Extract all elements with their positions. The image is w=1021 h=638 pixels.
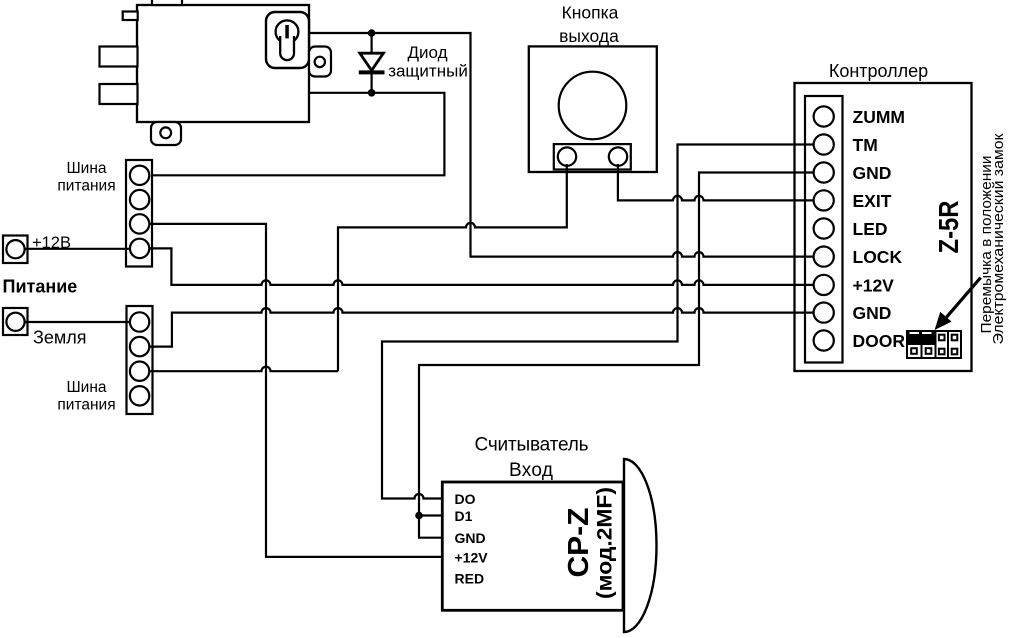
diode VD1 cathode bar bbox=[359, 70, 385, 74]
svg-text:питания: питания bbox=[57, 178, 115, 195]
svg-text:+12V: +12V bbox=[853, 276, 895, 296]
svg-text:Кнопка: Кнопка bbox=[562, 3, 619, 23]
svg-text:GND: GND bbox=[853, 303, 892, 323]
svg-text:Z-5R: Z-5R bbox=[933, 201, 964, 254]
svg-text:LOCK: LOCK bbox=[853, 247, 903, 267]
wire button terminal B to EXIT bbox=[618, 164, 818, 200]
svg-text:Считыватель: Считыватель bbox=[475, 435, 589, 456]
lock right mounting lug bbox=[309, 47, 331, 77]
svg-text:питания: питания bbox=[57, 397, 115, 414]
svg-text:Вход: Вход bbox=[509, 460, 553, 481]
svg-text:Диод: Диод bbox=[407, 43, 447, 62]
+12V input terminal box bbox=[3, 236, 28, 264]
svg-text:Электромеханический замок: Электромеханический замок bbox=[990, 133, 1007, 344]
lock cylinder plate bbox=[266, 12, 309, 68]
svg-text:защитный: защитный bbox=[388, 62, 468, 81]
svg-text:Шина: Шина bbox=[66, 160, 106, 177]
wire bus1-3 to reader +12V bbox=[149, 224, 442, 557]
terminal TM bbox=[814, 134, 834, 154]
svg-text:Шина: Шина bbox=[66, 379, 106, 396]
node dot diode anode bbox=[368, 29, 376, 37]
reader CP-Z box bbox=[442, 482, 623, 610]
wire lock top to LOCK terminal bbox=[309, 33, 818, 257]
svg-text:+12В: +12В bbox=[32, 234, 71, 252]
exit button terminal A bbox=[558, 147, 576, 165]
exit button SB1 box bbox=[529, 46, 657, 172]
wire TM to reader DO bbox=[382, 145, 818, 499]
svg-text:D1: D1 bbox=[455, 508, 473, 524]
exit button SB1 cap circle bbox=[559, 72, 627, 140]
svg-text:GND: GND bbox=[455, 530, 486, 546]
wire bus2-3 ground stub bbox=[149, 367, 338, 372]
svg-text:TM: TM bbox=[853, 135, 878, 155]
wire reader D1 to reader GND bbox=[419, 516, 443, 538]
wire +12V input to bus1 bbox=[25, 248, 130, 250]
jumper column 3 bbox=[936, 331, 949, 358]
+12V input terminal circle bbox=[6, 240, 24, 258]
bus1 terminal 2 bbox=[130, 190, 149, 209]
terminal GND1 bbox=[814, 162, 834, 182]
wire diode branch bbox=[371, 33, 373, 93]
svg-text:(мод.2MF): (мод.2MF) bbox=[594, 487, 617, 599]
arrow to jumper bbox=[947, 278, 981, 318]
svg-text:+12V: +12V bbox=[455, 550, 489, 566]
power bus strip 2 (bottom) bbox=[127, 306, 153, 414]
bus2 terminal 2 bbox=[130, 337, 149, 356]
terminal LOCK bbox=[814, 247, 834, 267]
bus2 terminal 4 bbox=[130, 386, 149, 405]
node dot D1 junction bbox=[415, 512, 423, 520]
lock EM1 body bbox=[137, 5, 309, 122]
jumper cell 2 bbox=[922, 344, 936, 358]
reader dome bbox=[624, 459, 657, 632]
terminal GND2 bbox=[814, 303, 834, 323]
svg-text:LED: LED bbox=[853, 219, 888, 239]
svg-text:ZUMM: ZUMM bbox=[853, 107, 905, 127]
lock right lug hole bbox=[315, 57, 325, 67]
svg-text:Питание: Питание bbox=[3, 277, 78, 297]
bus2 terminal 1 bbox=[130, 312, 149, 331]
wire button terminal A to GND bus bbox=[338, 164, 567, 371]
svg-text:Земля: Земля bbox=[33, 328, 87, 348]
wire GND to reader D1 bbox=[419, 173, 818, 516]
lock key tongue bbox=[280, 36, 294, 60]
svg-text:GND: GND bbox=[853, 163, 892, 183]
lock key slot bar bbox=[285, 25, 289, 38]
lock left small tab bbox=[123, 12, 138, 21]
bus1 terminal 1 bbox=[130, 166, 149, 185]
svg-text:RED: RED bbox=[455, 571, 485, 587]
wire bus1-4 to controller +12V bbox=[149, 248, 818, 285]
diode VD1 triangle bbox=[360, 53, 384, 70]
lock left prong 1 bbox=[100, 47, 138, 67]
jumper cap (black) bbox=[907, 331, 936, 344]
bus2 terminal 3 bbox=[130, 362, 149, 381]
lock bottom mounting lug bbox=[151, 122, 181, 145]
lock left prong 2 bbox=[100, 84, 138, 104]
svg-text:CP-Z: CP-Z bbox=[563, 508, 595, 578]
svg-text:выхода: выхода bbox=[559, 26, 619, 46]
jumper cell 1 bbox=[907, 344, 922, 358]
ground input terminal box bbox=[3, 308, 28, 335]
svg-text:Контроллер: Контроллер bbox=[829, 61, 928, 81]
exit button SB1 terminal block bbox=[554, 144, 631, 169]
lock bottom lug hole bbox=[160, 127, 171, 138]
ground input terminal circle bbox=[6, 313, 24, 331]
terminal +12V bbox=[814, 275, 834, 295]
svg-text:DO: DO bbox=[455, 491, 476, 507]
lock key circle bbox=[276, 20, 299, 43]
node dot diode cathode bbox=[368, 89, 376, 97]
svg-text:DOOR: DOOR bbox=[853, 331, 906, 351]
terminal DOOR bbox=[814, 330, 834, 350]
wire lock bottom / diode loop to +12V bus bbox=[149, 93, 444, 176]
controller U1 box bbox=[795, 83, 972, 371]
lock top tab bbox=[152, 0, 182, 5]
terminal ZUMM bbox=[814, 106, 834, 126]
bus1 terminal 4 bbox=[130, 239, 149, 258]
terminal LED bbox=[814, 218, 834, 238]
terminal EXIT bbox=[814, 190, 834, 210]
exit button terminal B bbox=[609, 147, 627, 165]
svg-text:EXIT: EXIT bbox=[853, 191, 892, 211]
power bus strip 1 (top) bbox=[126, 160, 152, 267]
jumper block J1 bbox=[907, 331, 961, 358]
wire ground input to bus2 bbox=[25, 321, 130, 323]
controller terminal strip bbox=[805, 96, 843, 363]
wire bus2-2 to controller GND bbox=[149, 308, 818, 347]
bus1 terminal 3 bbox=[130, 214, 149, 233]
jumper column 4 bbox=[948, 331, 961, 358]
